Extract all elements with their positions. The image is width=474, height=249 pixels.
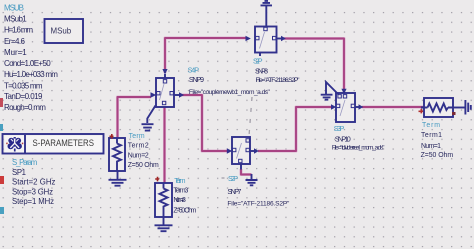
- svg-text:File="couplernewb1_mom_a.ds": File="couplernewb1_mom_a.ds": [189, 89, 271, 96]
- svg-text:Cond=1.0E+50: Cond=1.0E+50: [4, 59, 51, 68]
- svg-text:S3P: S3P: [334, 124, 345, 133]
- svg-text:S2P: S2P: [228, 174, 238, 183]
- svg-text:Z=50 Ohm: Z=50 Ohm: [173, 208, 196, 215]
- svg-text:Term: Term: [422, 122, 440, 129]
- svg-text:MSUB: MSUB: [4, 4, 24, 13]
- svg-text:MSub1: MSub1: [4, 14, 27, 23]
- svg-text:File="tdividerreal_mom_a.ds": File="tdividerreal_mom_a.ds": [332, 144, 385, 151]
- svg-text:SNP8: SNP8: [255, 67, 268, 76]
- svg-text:Step=1 MHz: Step=1 MHz: [12, 197, 54, 206]
- svg-text:Mur=1: Mur=1: [4, 48, 27, 57]
- svg-text:Term1: Term1: [421, 132, 442, 139]
- svg-text:Z=50 Ohm: Z=50 Ohm: [421, 152, 454, 159]
- svg-text:SNP9: SNP9: [189, 75, 204, 84]
- svg-text:File="ATF-21186.S2P": File="ATF-21186.S2P": [256, 77, 301, 84]
- svg-text:Num=1: Num=1: [421, 143, 441, 150]
- svg-text:S2P: S2P: [253, 57, 263, 66]
- svg-text:Er=4.6: Er=4.6: [4, 37, 26, 46]
- svg-text:Num=2: Num=2: [128, 152, 149, 159]
- svg-text:SP1: SP1: [12, 168, 26, 177]
- svg-text:MSub: MSub: [51, 26, 72, 36]
- svg-text:Start=2 GHz: Start=2 GHz: [12, 177, 55, 186]
- svg-text:H=1.6 mm: H=1.6 mm: [4, 25, 33, 34]
- svg-text:Term3: Term3: [173, 187, 188, 194]
- svg-text:File="ATF-21186.S2P": File="ATF-21186.S2P": [227, 201, 290, 208]
- svg-text:Term: Term: [174, 178, 185, 185]
- svg-text:Num=3: Num=3: [173, 197, 186, 204]
- svg-text:S-PARAMETERS: S-PARAMETERS: [33, 138, 95, 149]
- svg-text:S_Param: S_Param: [12, 158, 37, 167]
- svg-text:Rough=0 mm: Rough=0 mm: [4, 103, 46, 112]
- svg-text:Hu=1.0e+033 mm: Hu=1.0e+033 mm: [4, 70, 58, 79]
- svg-text:TanD=0.019: TanD=0.019: [4, 92, 43, 101]
- svg-text:SNP10: SNP10: [335, 134, 351, 143]
- svg-text:Term2: Term2: [128, 143, 149, 150]
- svg-text:T=0.035 mm: T=0.035 mm: [4, 81, 43, 90]
- svg-text:Term: Term: [129, 133, 145, 140]
- svg-text:S4P: S4P: [188, 66, 200, 75]
- svg-text:Z=50 Ohm: Z=50 Ohm: [128, 162, 159, 169]
- svg-text:Stop=3 GHz: Stop=3 GHz: [12, 188, 53, 197]
- svg-text:SNP7: SNP7: [227, 187, 241, 196]
